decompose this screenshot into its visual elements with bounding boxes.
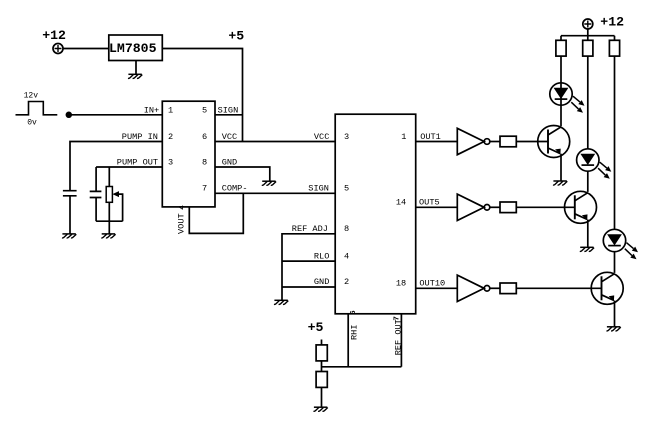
svg-text:1: 1: [401, 132, 406, 142]
svg-text:VCC: VCC: [314, 132, 329, 142]
svg-text:0v: 0v: [27, 119, 37, 128]
svg-text:SIGN: SIGN: [218, 105, 239, 115]
svg-text:OUT10: OUT10: [419, 279, 445, 289]
svg-text:OUT1: OUT1: [420, 132, 441, 142]
svg-text:RLO: RLO: [314, 251, 329, 261]
svg-text:4: 4: [179, 205, 187, 210]
svg-text:LM7805: LM7805: [109, 41, 157, 56]
svg-text:VCC: VCC: [222, 132, 237, 142]
svg-text:REF OUT: REF OUT: [394, 319, 404, 355]
svg-text:COMP-: COMP-: [222, 184, 248, 194]
svg-text:IN+: IN+: [144, 105, 159, 115]
svg-text:+5: +5: [308, 320, 324, 335]
svg-text:14: 14: [396, 198, 406, 208]
svg-text:7: 7: [202, 184, 207, 194]
svg-text:OUT5: OUT5: [419, 198, 440, 208]
svg-text:REF ADJ: REF ADJ: [292, 224, 328, 234]
svg-text:8: 8: [202, 157, 207, 167]
svg-text:+5: +5: [228, 29, 244, 44]
svg-text:+12: +12: [42, 28, 66, 43]
svg-text:GND: GND: [314, 277, 329, 287]
svg-text:PUMP IN: PUMP IN: [122, 132, 158, 142]
svg-text:5: 5: [344, 184, 349, 194]
svg-text:4: 4: [344, 251, 349, 261]
svg-text:2: 2: [344, 277, 349, 287]
svg-text:1: 1: [168, 105, 173, 115]
svg-text:PUMP OUT: PUMP OUT: [117, 157, 158, 167]
svg-text:18: 18: [396, 279, 406, 289]
svg-text:GND: GND: [222, 157, 237, 167]
svg-text:+12: +12: [600, 15, 624, 30]
svg-text:6: 6: [202, 132, 207, 142]
svg-text:2: 2: [168, 132, 173, 142]
svg-text:VOUT: VOUT: [177, 213, 187, 234]
svg-text:5: 5: [202, 105, 207, 115]
svg-text:RHI: RHI: [350, 325, 360, 340]
svg-text:8: 8: [344, 224, 349, 234]
svg-text:3: 3: [168, 157, 173, 167]
svg-text:12v: 12v: [24, 92, 39, 101]
svg-text:SIGN: SIGN: [308, 184, 329, 194]
svg-text:3: 3: [344, 132, 349, 142]
svg-text:6: 6: [350, 310, 358, 315]
